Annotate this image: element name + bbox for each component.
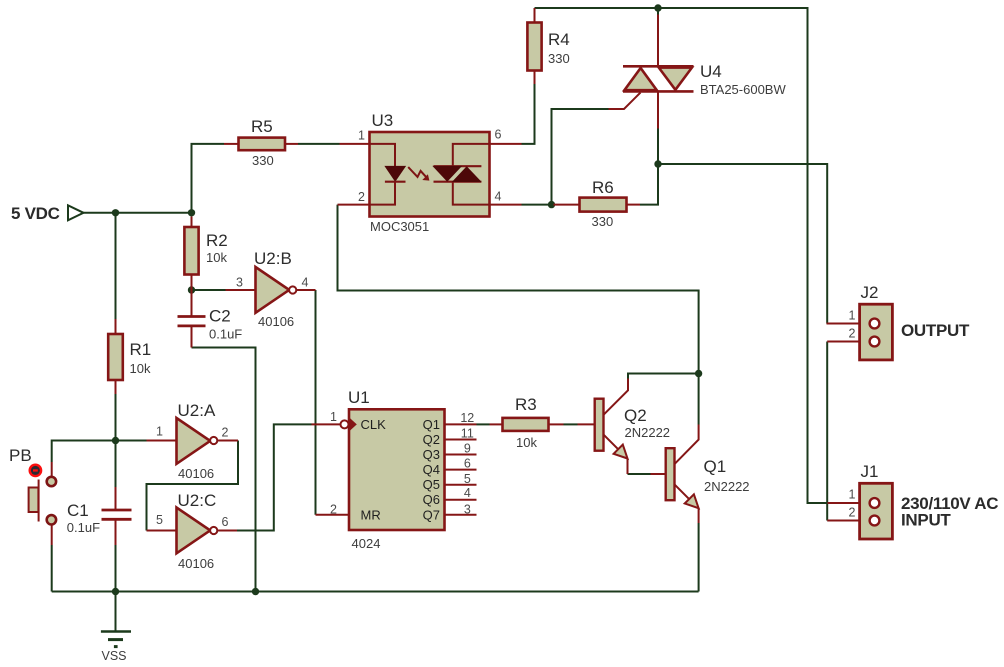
connector J2 bbox=[849, 283, 893, 360]
pin U1 Q2 bbox=[445, 439, 477, 441]
svg-text:R4: R4 bbox=[548, 30, 570, 49]
svg-text:Q1: Q1 bbox=[704, 457, 727, 476]
svg-text:10k: 10k bbox=[516, 435, 537, 450]
svg-text:U4: U4 bbox=[700, 62, 722, 81]
wire 5VDC to R5 riser bbox=[192, 144, 225, 213]
wire C1 bottom lead bbox=[115, 520, 117, 545]
resistor R4 bbox=[527, 23, 569, 71]
wire C1 top lead bbox=[115, 487, 117, 509]
pin U3 pin4 stub bbox=[490, 204, 522, 206]
wire PB bottom bbox=[51, 545, 53, 592]
svg-text:2: 2 bbox=[330, 503, 337, 517]
ground VSS bbox=[101, 632, 131, 664]
wire C2 top lead bbox=[191, 290, 193, 316]
junction MT1 J2 bbox=[654, 160, 661, 167]
wire U4 MT2 stub bbox=[657, 8, 659, 15]
pin Q2 collector bbox=[604, 379, 629, 415]
svg-text:OUTPUT: OUTPUT bbox=[901, 321, 970, 340]
pin Q1 emitter drop bbox=[698, 508, 700, 523]
pin U1 Q5 bbox=[445, 484, 477, 486]
wire J2 pin2 to J1 pin2 bbox=[826, 342, 828, 521]
junction ground at VSS bbox=[112, 588, 119, 595]
inverter U2:A bbox=[156, 401, 229, 481]
svg-text:INPUT: INPUT bbox=[901, 511, 951, 530]
junction R2 C2 pin3 bbox=[188, 286, 195, 293]
counter U1 4024 bbox=[341, 388, 445, 551]
wire Q2 collector link bbox=[628, 374, 699, 379]
svg-text:11: 11 bbox=[461, 426, 474, 440]
svg-text:MR: MR bbox=[361, 508, 381, 523]
svg-text:5 VDC: 5 VDC bbox=[11, 204, 60, 223]
connector J1 bbox=[849, 462, 893, 539]
wire Q1 emitter drop bbox=[698, 523, 700, 592]
pin U1 Q7 bbox=[445, 514, 477, 516]
triac U4 BTA25-600BW bbox=[623, 62, 786, 97]
svg-text:J2: J2 bbox=[861, 283, 879, 302]
svg-text:330: 330 bbox=[252, 153, 274, 168]
wire ground bus bbox=[52, 591, 699, 593]
wire PB top bbox=[52, 441, 116, 463]
svg-text:VSS: VSS bbox=[102, 649, 127, 663]
transistor Q2 bbox=[595, 399, 670, 459]
svg-text:6: 6 bbox=[464, 457, 471, 471]
svg-text:4: 4 bbox=[495, 190, 502, 204]
svg-text:2: 2 bbox=[849, 327, 856, 341]
pin U2:B input bbox=[226, 289, 256, 291]
wire VSS drop bbox=[115, 592, 117, 632]
junction collectors bbox=[695, 370, 702, 377]
wire node to U2:A input bbox=[116, 440, 147, 442]
pin Q1 emitter line bbox=[675, 484, 696, 505]
wire R2 to U2:B input bbox=[192, 289, 226, 291]
pin Q1 base lead bbox=[651, 473, 666, 475]
svg-text:1: 1 bbox=[849, 488, 856, 502]
capacitor C2 bbox=[178, 307, 243, 342]
resistor R6 bbox=[580, 178, 627, 229]
svg-text:Q4: Q4 bbox=[423, 462, 440, 477]
svg-text:4024: 4024 bbox=[352, 536, 381, 551]
svg-text:9: 9 bbox=[464, 441, 471, 455]
capacitor C1 bbox=[67, 501, 132, 535]
svg-text:Q6: Q6 bbox=[423, 492, 440, 507]
svg-text:0.1uF: 0.1uF bbox=[67, 520, 100, 535]
wire 5VDC rail bbox=[84, 212, 192, 214]
svg-text:Q1: Q1 bbox=[423, 417, 440, 432]
svg-text:PB: PB bbox=[9, 446, 32, 465]
wire U2:B out to U1 MR bbox=[315, 290, 317, 515]
svg-text:1: 1 bbox=[849, 309, 856, 323]
wire MT1 riser bbox=[657, 129, 659, 165]
svg-text:10k: 10k bbox=[206, 250, 227, 265]
wire R1 top lead bbox=[115, 319, 117, 334]
wire R6 to MT1 node bbox=[640, 164, 658, 205]
svg-text:R3: R3 bbox=[515, 395, 537, 414]
wire U3 pin2 to collectors bbox=[338, 205, 699, 374]
wire U2:A out to U2:C in bbox=[147, 441, 239, 531]
svg-text:1: 1 bbox=[330, 410, 337, 424]
svg-text:330: 330 bbox=[592, 214, 614, 229]
pin Q1 collector bbox=[675, 425, 699, 465]
wire R4 top lead bbox=[534, 8, 536, 23]
wire R2 top lead bbox=[191, 217, 193, 228]
pin U3 pin1 stub bbox=[340, 143, 370, 145]
wire R3 left lead bbox=[490, 423, 503, 425]
svg-text:C2: C2 bbox=[209, 307, 231, 326]
wire triac node to J2 pin1 bbox=[658, 164, 827, 324]
junction 5V at R2 bbox=[188, 209, 195, 216]
optocoupler U3 MOC3051 bbox=[370, 111, 490, 234]
svg-text:2: 2 bbox=[222, 426, 229, 440]
svg-text:Q2: Q2 bbox=[624, 406, 647, 425]
svg-text:R6: R6 bbox=[592, 178, 614, 197]
svg-text:6: 6 bbox=[495, 128, 502, 142]
svg-text:C1: C1 bbox=[67, 501, 89, 520]
svg-text:R1: R1 bbox=[130, 340, 152, 359]
svg-text:CLK: CLK bbox=[361, 417, 387, 432]
pin Q2 emitter line bbox=[604, 435, 625, 456]
svg-text:R2: R2 bbox=[206, 231, 228, 250]
resistor R2 bbox=[184, 227, 227, 275]
wire R2 bottom lead bbox=[191, 275, 193, 291]
svg-text:3: 3 bbox=[236, 276, 243, 290]
resistor R5 bbox=[239, 117, 286, 168]
resistor R3 bbox=[503, 395, 549, 450]
pin J1 pin2 lead bbox=[827, 520, 869, 522]
power flag 5 VDC input terminal bbox=[11, 204, 84, 223]
svg-text:U2:C: U2:C bbox=[178, 491, 217, 510]
pin J1 pin1 lead bbox=[828, 502, 870, 504]
pin Q2 base lead bbox=[578, 423, 595, 425]
wire PB top lead bbox=[51, 462, 53, 476]
svg-text:J1: J1 bbox=[861, 462, 879, 481]
pin U2:A input bbox=[147, 440, 177, 442]
svg-text:U1: U1 bbox=[348, 388, 370, 407]
push button PB bbox=[9, 446, 56, 525]
pin U1 MR stub bbox=[316, 514, 350, 516]
pin J2 pin2 lead bbox=[827, 341, 869, 343]
svg-text:40106: 40106 bbox=[178, 466, 214, 481]
wire U3 pin6 to R4 bbox=[522, 84, 535, 144]
svg-text:R5: R5 bbox=[251, 117, 273, 136]
wire C1 to ground bus bbox=[115, 545, 117, 592]
pin U3 pin6 stub bbox=[490, 143, 522, 145]
PIN STUBS (maroon) bbox=[52, 8, 870, 545]
pin Q2 emitter drop bbox=[627, 459, 629, 475]
junction 5V at R1 bbox=[112, 209, 119, 216]
wire Q2 emitter to Q1 base bbox=[628, 473, 651, 475]
wire C2 bottom to ground bbox=[192, 348, 256, 592]
pin U1 CLK stub bbox=[312, 423, 341, 425]
pin U2:C output bbox=[217, 530, 237, 532]
pin U4 gate bbox=[609, 93, 641, 110]
svg-text:Q7: Q7 bbox=[423, 508, 440, 523]
resistor R1 bbox=[108, 334, 151, 380]
svg-text:2: 2 bbox=[358, 190, 365, 204]
svg-text:2N2222: 2N2222 bbox=[704, 479, 750, 494]
wire PB bottom lead bbox=[51, 524, 53, 546]
wire R1 bottom lead bbox=[115, 380, 117, 394]
svg-text:U3: U3 bbox=[372, 111, 394, 130]
svg-text:1: 1 bbox=[358, 129, 365, 143]
svg-text:4: 4 bbox=[464, 486, 471, 500]
pin U4 MT1 bbox=[657, 92, 659, 129]
pin U1 Q3 bbox=[445, 454, 477, 456]
junction ground at C2 line bbox=[252, 588, 259, 595]
svg-text:Q5: Q5 bbox=[423, 477, 440, 492]
pin J2 pin1 lead bbox=[827, 323, 870, 325]
svg-text:2N2222: 2N2222 bbox=[625, 425, 671, 440]
svg-text:330: 330 bbox=[548, 51, 570, 66]
wire R6 right lead bbox=[627, 204, 641, 206]
pin U1 Q6 bbox=[445, 499, 477, 501]
pin U1 Q1 bbox=[445, 423, 477, 425]
svg-text:4: 4 bbox=[302, 276, 309, 290]
svg-text:10k: 10k bbox=[130, 361, 151, 376]
wire 5V to R1 bbox=[115, 213, 117, 319]
transistor Q1 bbox=[666, 448, 750, 508]
svg-text:40106: 40106 bbox=[178, 556, 214, 571]
wire R5 left lead bbox=[224, 143, 239, 145]
pin U4 MT2 bbox=[657, 15, 659, 67]
pin U1 Q4 bbox=[445, 469, 477, 471]
svg-text:12: 12 bbox=[460, 411, 474, 425]
wire top rail to J1 pin1 bbox=[535, 8, 828, 503]
svg-text:U2:B: U2:B bbox=[254, 249, 292, 268]
wire collector node down bbox=[698, 374, 700, 425]
svg-text:5: 5 bbox=[156, 513, 163, 527]
svg-text:6: 6 bbox=[222, 515, 229, 529]
svg-text:1: 1 bbox=[156, 425, 163, 439]
svg-text:Q2: Q2 bbox=[423, 432, 440, 447]
wire R6 left lead bbox=[554, 204, 580, 206]
inverter U2:C bbox=[156, 491, 229, 571]
svg-text:40106: 40106 bbox=[258, 314, 294, 329]
svg-text:U2:A: U2:A bbox=[178, 401, 216, 420]
pin U3 pin2 stub bbox=[338, 204, 370, 206]
wire U1 Q1 to R3 bbox=[477, 423, 490, 425]
inverter U2:B bbox=[236, 249, 309, 329]
wire gate riser bbox=[552, 109, 609, 205]
wire R1 to C1 bbox=[115, 394, 117, 487]
pin U2:B output bbox=[296, 289, 315, 291]
wire R5 to U3 pin1 bbox=[298, 143, 340, 145]
junction U3 pin4 R6 gate bbox=[548, 201, 555, 208]
wire R4 bottom lead bbox=[534, 71, 536, 85]
wire U2:C out to U1 CLK bbox=[237, 424, 312, 530]
svg-text:BTA25-600BW: BTA25-600BW bbox=[700, 82, 786, 97]
svg-text:Q3: Q3 bbox=[423, 447, 440, 462]
wire C2 bottom lead bbox=[191, 327, 193, 348]
wire U3 pin4 to node bbox=[522, 204, 555, 206]
svg-text:0.1uF: 0.1uF bbox=[209, 327, 242, 342]
svg-text:MOC3051: MOC3051 bbox=[370, 219, 429, 234]
wire R3 to Q2 base bbox=[564, 423, 578, 425]
svg-text:2: 2 bbox=[849, 506, 856, 520]
junction PB R1 node bbox=[112, 437, 119, 444]
junction top rail U4 bbox=[654, 4, 661, 11]
wire R5 right lead bbox=[285, 143, 298, 145]
svg-text:3: 3 bbox=[464, 503, 471, 517]
pin U2:C input bbox=[147, 530, 177, 532]
wire R3 right lead bbox=[549, 423, 564, 425]
pin U2:A output bbox=[217, 440, 238, 442]
svg-text:5: 5 bbox=[464, 472, 471, 486]
